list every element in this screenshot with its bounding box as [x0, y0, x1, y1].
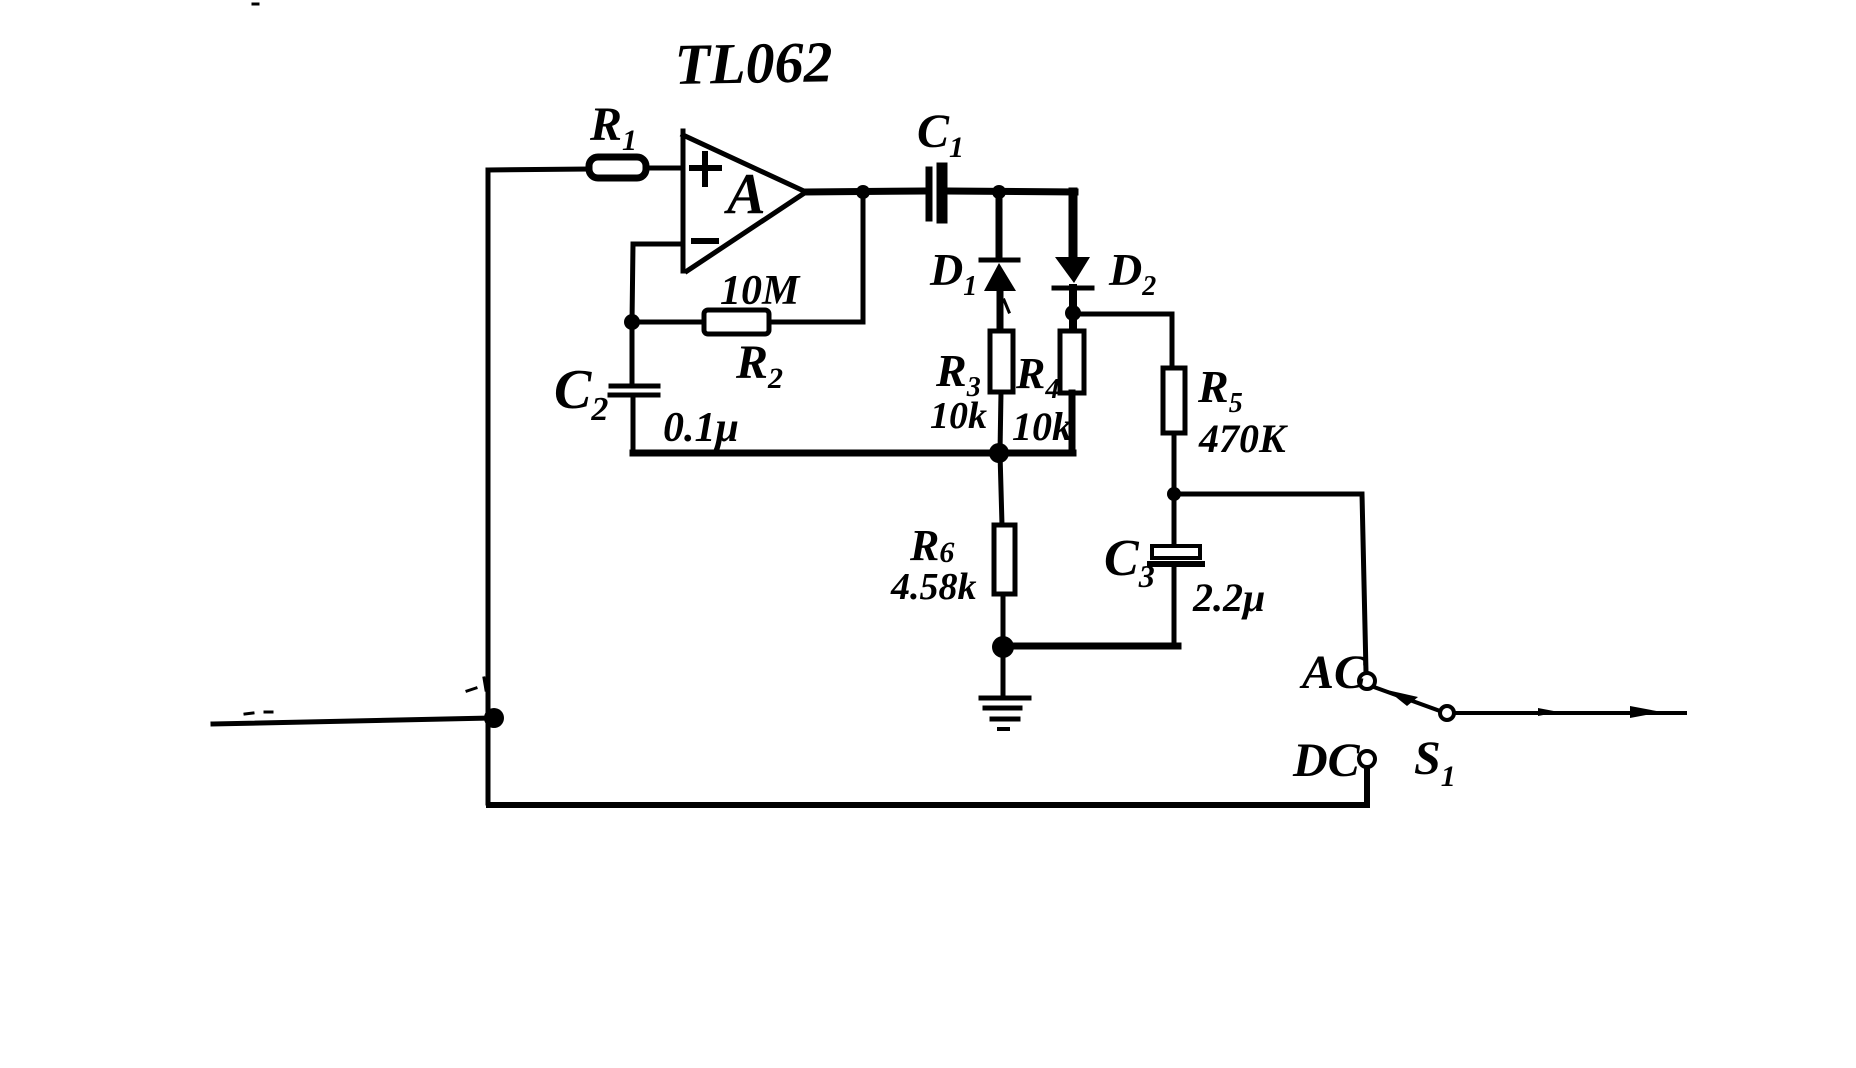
wire R3 junction down to R6 — [1000, 453, 1002, 525]
diode D1 — [981, 258, 1018, 263]
diode D2 — [1055, 257, 1090, 283]
wire left vertical rail — [486, 170, 491, 803]
wire input line left — [213, 718, 489, 724]
terminal AC circle — [1359, 673, 1375, 689]
resistor R2 — [704, 310, 769, 334]
op-amp U1 (A) — [683, 131, 806, 271]
capacitor C1 — [926, 170, 933, 218]
wire D2 junction to R5 — [1073, 314, 1172, 368]
wire top from rail to R1 — [488, 169, 588, 170]
resistor R5 — [1163, 368, 1185, 433]
svg-text:A: A — [724, 161, 766, 226]
wire R2 left to node — [632, 320, 704, 325]
wire R6 bottom — [1001, 594, 1006, 647]
resistor R3 — [990, 331, 1013, 392]
wire R3 bottom — [1000, 392, 1001, 453]
svg-text:10M: 10M — [720, 268, 801, 314]
node C1/D1 junction — [992, 185, 1006, 199]
wire R4 bottom — [1069, 393, 1076, 452]
node input junction — [484, 708, 504, 728]
node D2 cathode junction — [1065, 305, 1081, 321]
wire op-amp output — [806, 191, 1075, 192]
switch S1 pole circle — [1440, 706, 1454, 720]
wire junction to AC terminal — [1174, 494, 1366, 672]
wire R5 bottom — [1172, 433, 1177, 494]
resistor R1 — [589, 157, 646, 178]
svg-text:0.1μ: 0.1μ — [663, 405, 739, 451]
wire C3 bottom to ground node — [1003, 643, 1178, 650]
node R5/C3 junction — [1167, 487, 1181, 501]
wire - input to node — [632, 244, 683, 322]
svg-text:DC: DC — [1292, 734, 1361, 787]
ground — [1001, 647, 1006, 697]
node ground junction — [992, 636, 1014, 658]
svg-text:10k: 10k — [930, 395, 987, 437]
svg-text:2.2μ: 2.2μ — [1192, 575, 1265, 620]
resistor R6 — [994, 525, 1015, 594]
op-amp + input symbol — [692, 154, 719, 184]
svg-text:TL062: TL062 — [674, 29, 833, 97]
node inverting input junction — [624, 314, 640, 330]
wire D2 branch vertical — [1069, 192, 1078, 256]
stray marks — [245, 678, 486, 714]
resistor R4 — [1060, 331, 1084, 393]
svg-text:4.58k: 4.58k — [890, 566, 977, 608]
svg-text:AC: AC — [1299, 646, 1367, 699]
wire output line with arrows — [1455, 711, 1685, 715]
wire feedback vertical — [769, 192, 863, 322]
node output junction — [856, 185, 870, 199]
wire bottom mid horizontal — [633, 450, 1073, 457]
wire D1 branch vertical — [996, 192, 1003, 258]
svg-text:470K: 470K — [1198, 416, 1288, 461]
op-amp - input symbol — [694, 238, 716, 244]
svg-text:10k: 10k — [1012, 404, 1072, 449]
capacitor C2 — [630, 322, 635, 383]
terminal DC circle — [1359, 751, 1375, 767]
switch S1 lever — [1374, 687, 1440, 711]
node R3/R4 junction — [989, 443, 1009, 463]
wire bottom long horizontal — [489, 768, 1367, 805]
wire R1 to op-amp + input — [648, 166, 683, 171]
capacitor C3 — [1172, 494, 1177, 546]
